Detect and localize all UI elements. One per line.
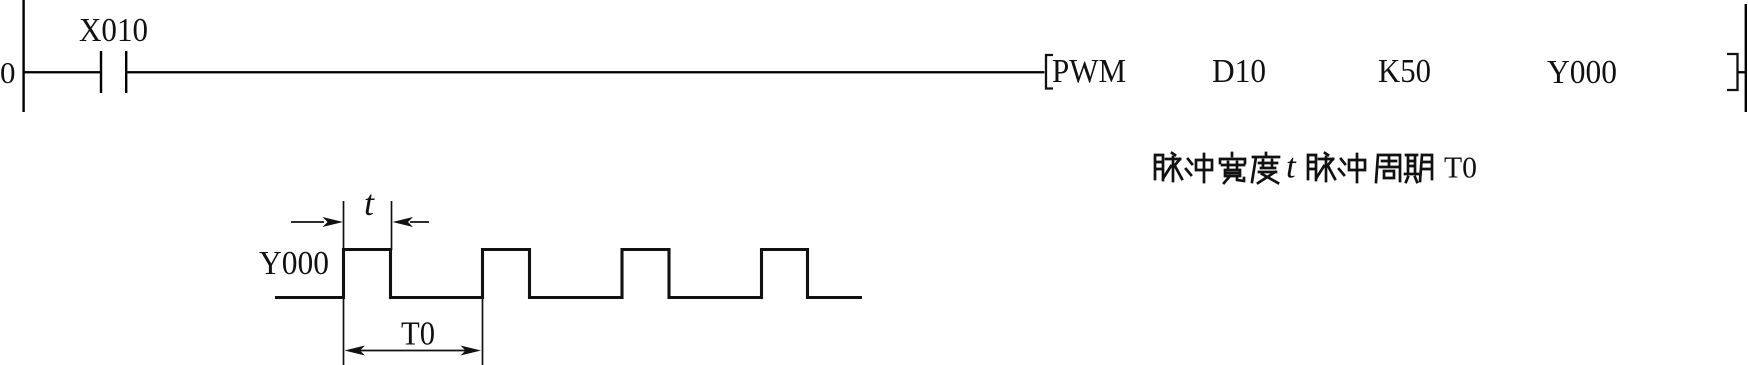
svg-text:t: t: [364, 183, 375, 223]
left power rail: [22, 0, 24, 112]
char zhou (cycle): [1376, 155, 1400, 182]
wire close bracket to right rail: [1738, 71, 1746, 73]
PWM instruction open bracket: [1046, 55, 1053, 89]
svg-text:t: t: [1286, 147, 1297, 186]
svg-text:T0: T0: [401, 316, 435, 353]
PWM instruction close bracket: [1727, 54, 1738, 90]
wire contact to PWM instruction: [127, 71, 1044, 73]
char chong (surge) 1: [1186, 154, 1212, 182]
char du (degree): [1252, 153, 1279, 183]
wire rail to contact X010: [24, 71, 100, 73]
right power rail: [1745, 4, 1747, 112]
svg-text:K50: K50: [1378, 53, 1431, 90]
contact X010 left bar: [100, 51, 102, 93]
char mai (pulse) 2: [1308, 153, 1335, 181]
svg-text:D10: D10: [1212, 53, 1266, 90]
char qi (period): [1405, 155, 1432, 182]
char mai (pulse) 1: [1155, 153, 1182, 181]
dimension extension line at first falling edge (t right): [391, 201, 393, 250]
contact X010 right bar: [125, 51, 127, 93]
char kuan (width): [1220, 153, 1245, 183]
t dimension line right segment with arrow: [410, 221, 429, 223]
dimension extension line at second rising edge (T0 right): [482, 299, 484, 365]
dimension extension line at first rising edge (t left / T0 left): [343, 201, 345, 365]
svg-text:Y000: Y000: [259, 245, 329, 282]
svg-text:Y000: Y000: [1547, 54, 1617, 91]
svg-text:X010: X010: [79, 12, 148, 49]
svg-text:T0: T0: [1444, 150, 1477, 185]
char chong (surge) 2: [1339, 154, 1365, 182]
svg-text:0: 0: [0, 55, 16, 90]
svg-text:PWM: PWM: [1052, 53, 1126, 90]
PWM output waveform trace: [275, 250, 862, 298]
T0 dimension double arrow: [360, 350, 466, 352]
annotation: pulse width t, pulse period T0 (hand-drawn CJK): [1155, 147, 1477, 186]
t dimension line left segment with arrow: [291, 221, 324, 223]
